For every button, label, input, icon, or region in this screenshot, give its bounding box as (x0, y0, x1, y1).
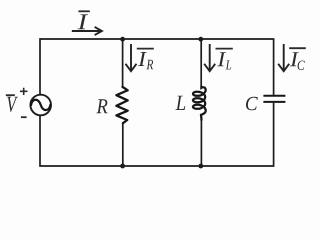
node junction dot bottom L (198, 164, 203, 169)
capacitor C top plate (263, 95, 285, 97)
label I_C current letter I (290, 52, 299, 66)
source V1 circle (30, 95, 51, 116)
label I_C overbar (289, 47, 306, 49)
inductor L coil (193, 87, 206, 121)
arrow I_C down (278, 44, 289, 71)
node junction dot top R (120, 37, 125, 42)
wire resistor branch top (122, 39, 124, 87)
label I_R current letter I (138, 52, 147, 66)
arrow I_R down (126, 44, 137, 71)
label I total current (78, 14, 88, 29)
wire inductor branch bottom (200, 118, 202, 166)
arrow I right (72, 27, 102, 35)
label I_L overbar (216, 48, 233, 50)
label I_L current letter I (217, 52, 226, 66)
wire bottom rail with corner risers (40, 103, 274, 166)
wire resistor branch bottom (122, 123, 124, 166)
arrow I_L down (204, 44, 215, 71)
label I overbar (78, 10, 89, 12)
label I_C subscript C (298, 61, 305, 70)
label V source voltage (7, 97, 18, 112)
label I_R subscript R (146, 60, 153, 69)
source plus sign (20, 88, 28, 95)
label R resistor (96, 99, 107, 113)
node junction dot bottom R (120, 164, 125, 169)
label C capacitor (246, 97, 258, 110)
label L inductor (175, 96, 185, 110)
source V1 sine wave (31, 100, 50, 110)
label I_R overbar (137, 48, 154, 50)
label V overbar (6, 94, 15, 96)
capacitor C bottom plate (263, 101, 285, 103)
node junction dot top L (198, 37, 203, 42)
label I_L subscript L (226, 60, 232, 69)
wire inductor branch top (200, 39, 202, 87)
resistor R zigzag (116, 87, 127, 123)
wire top rail with corner drops (40, 39, 274, 95)
source minus sign (21, 116, 27, 118)
